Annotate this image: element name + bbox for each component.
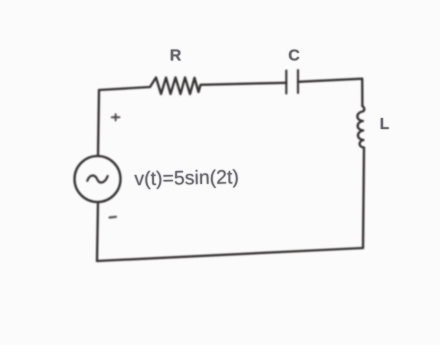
svg-text:v(t)=5sin(2t): v(t)=5sin(2t) — [134, 166, 239, 190]
svg-text:R: R — [170, 47, 182, 64]
svg-text:C: C — [288, 47, 300, 64]
svg-text:L: L — [380, 116, 389, 133]
